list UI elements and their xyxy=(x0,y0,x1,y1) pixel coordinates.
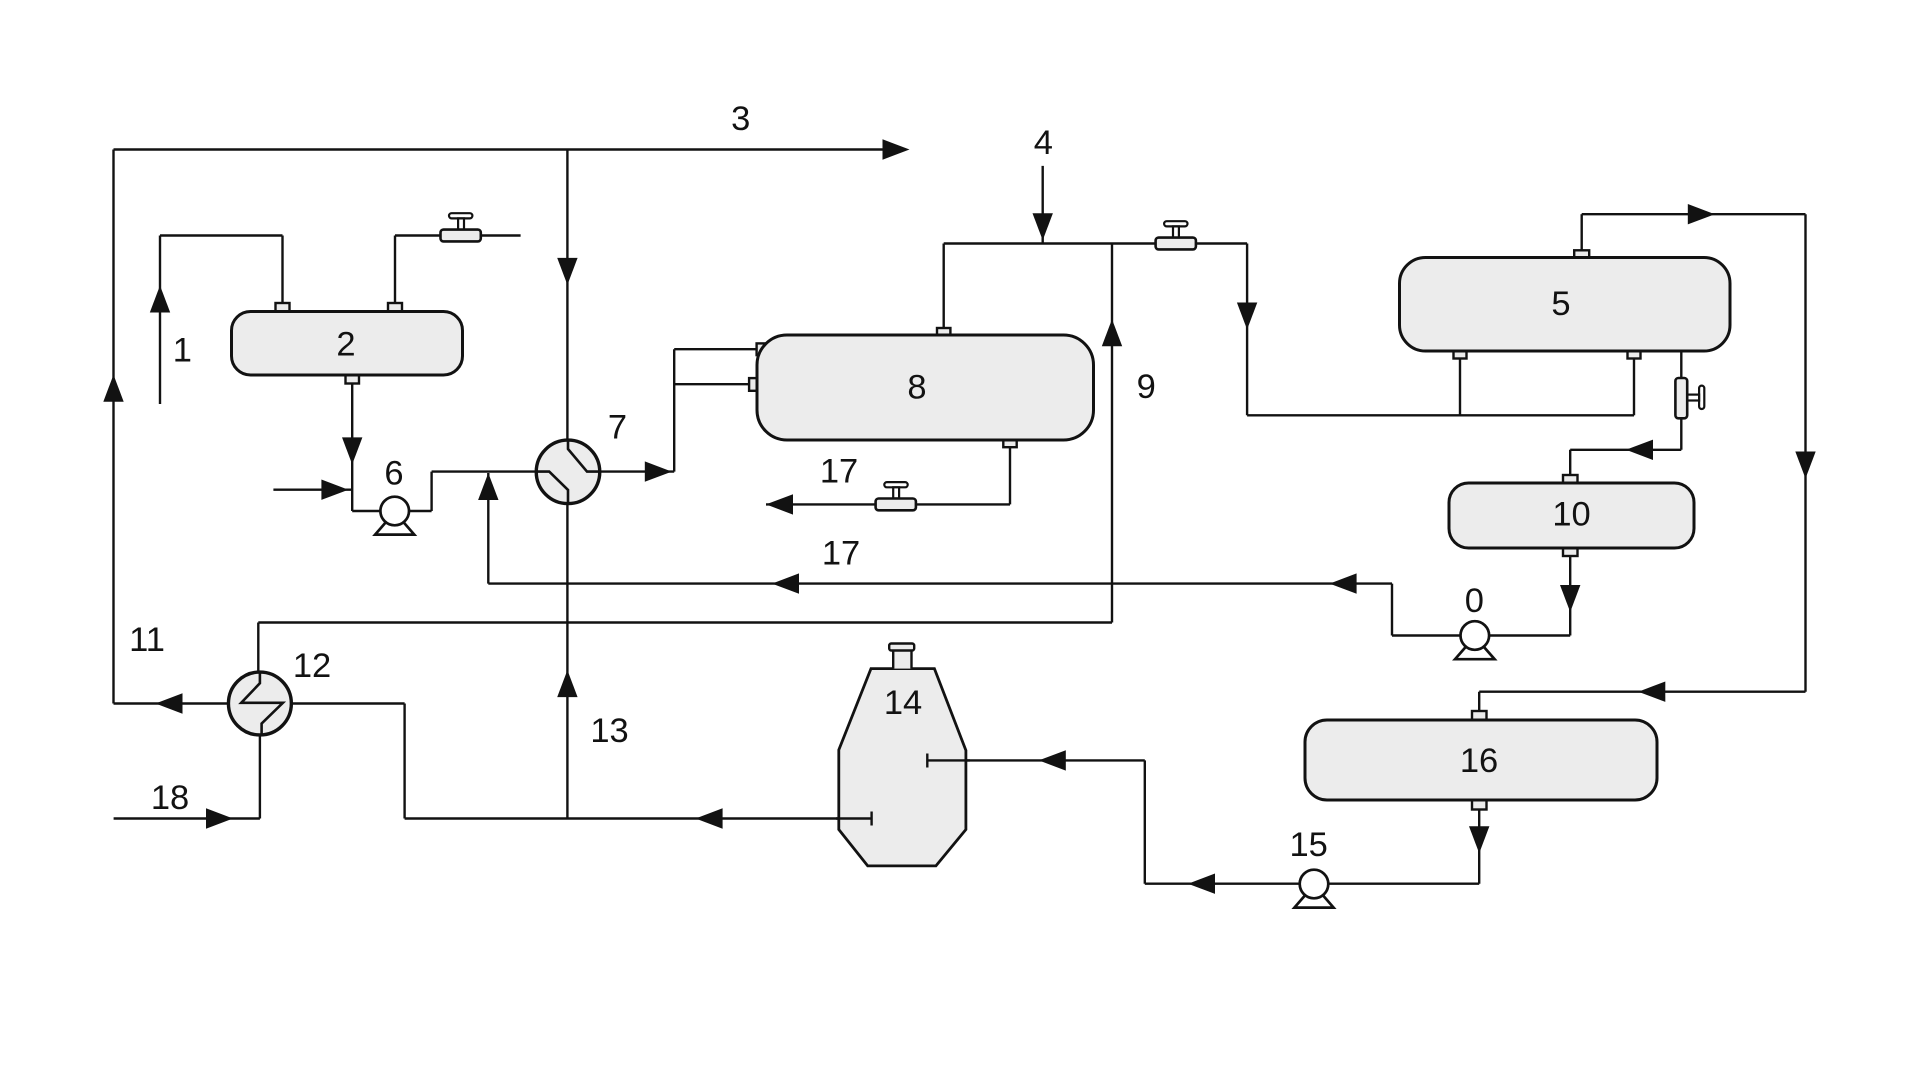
wire HX12 left outlet to riser xyxy=(114,702,230,704)
arrow stream 11 into riser (left) xyxy=(156,693,183,713)
wire stream 9 vertical xyxy=(1111,244,1113,623)
wire vessel 2 to valve V1 xyxy=(395,234,441,236)
arrow into vessel 16 (left) xyxy=(1638,682,1665,702)
wire into vessel 16 top xyxy=(1479,692,1805,712)
svg-text:6: 6 xyxy=(384,454,403,492)
vessel 10 nozzle stubs xyxy=(1563,475,1578,556)
wire vessel 14 left nozzle (inside overlay) xyxy=(836,817,872,819)
svg-text:7: 7 xyxy=(608,408,627,446)
arrow HX7 outlet (right) xyxy=(645,461,672,481)
vessel 8 nozzle stubs xyxy=(749,328,1017,447)
arrow left riser (up) xyxy=(103,375,123,402)
vessel 14 top flange xyxy=(889,644,914,651)
vessel 10 xyxy=(1449,483,1694,548)
wire vessel 5 bottom right nozzle stub xyxy=(1633,358,1635,415)
valve V3 (stream 17 purge) xyxy=(876,482,916,510)
arrow stream 18 inlet (right) xyxy=(206,808,233,828)
svg-text:17: 17 xyxy=(822,535,860,573)
svg-text:11: 11 xyxy=(129,621,165,659)
wire vessel 16 bottom to pump 15 xyxy=(1328,810,1479,884)
vessel 2 nozzle stubs xyxy=(276,303,403,384)
wire vessel 2 left nozzle drop xyxy=(281,236,283,305)
wire vessel 8 lower left nozzle branch xyxy=(674,383,749,385)
svg-text:1: 1 xyxy=(173,332,192,370)
wire pump 0 discharge xyxy=(1392,584,1461,636)
wire vessel 2 right nozzle riser xyxy=(394,236,396,305)
wire stream 17 purge with valve V3 xyxy=(766,503,1010,505)
vessel 8 xyxy=(757,335,1094,440)
wire elbow down to vessel 5 bottom header xyxy=(1246,244,1248,416)
arrow stream 4 inlet (down) xyxy=(1033,213,1053,240)
svg-text:2: 2 xyxy=(336,325,355,363)
arrow feed inlet at pump 6 (right) xyxy=(321,480,348,500)
svg-text:3: 3 xyxy=(731,100,750,138)
svg-text:10: 10 xyxy=(1552,496,1590,534)
wire HX7 outlet to vessel 8 xyxy=(600,349,757,471)
wire vessel 14 outlet header xyxy=(405,817,872,819)
wire stream 18 inlet xyxy=(114,817,260,819)
wire valve V1 outlet stub xyxy=(481,234,521,236)
wire stream 13 lower vertical xyxy=(566,504,568,819)
svg-text:5: 5 xyxy=(1551,285,1570,323)
wire vessel 10 bottom to pump 0 xyxy=(1489,556,1570,636)
arrow valve V4 line to vessel 10 (left) xyxy=(1626,440,1653,460)
vessel 16 xyxy=(1305,720,1657,800)
valve V2 (top header) xyxy=(1156,221,1196,249)
arrow pump 15 discharge (left) xyxy=(1188,874,1215,894)
vessel 16 nozzle stubs xyxy=(1472,711,1487,810)
wire valve V2 to elbow xyxy=(1196,242,1247,244)
svg-text:18: 18 xyxy=(151,779,189,817)
wire stream 1 vertical xyxy=(159,236,161,405)
svg-text:8: 8 xyxy=(907,368,926,406)
wire HX12 right outlet xyxy=(291,704,404,819)
pump 0 xyxy=(1455,621,1495,659)
svg-text:17: 17 xyxy=(820,453,858,491)
svg-text:14: 14 xyxy=(884,684,922,722)
wire HX12 bottom to stream 18 junction xyxy=(259,735,261,818)
wire vessel 14 inlet from pump 15 xyxy=(927,760,1299,883)
arrow stream 17 return mid (left) xyxy=(1330,573,1357,593)
wire stream 4 inlet vertical xyxy=(1041,166,1043,244)
vessel 14 neck xyxy=(893,650,911,668)
op heat exchanger 12 xyxy=(228,672,291,735)
arrow stream 17 return left (left) xyxy=(772,573,799,593)
arrow into vessel 14 (left) xyxy=(1039,750,1066,770)
wire elbow down into HX12 top xyxy=(257,623,259,673)
arrow stream 13 up into HX7 (up) xyxy=(557,670,577,697)
vessel 14 right nozzle tick xyxy=(926,754,928,768)
valve V1 (vessel 2 overhead) xyxy=(441,213,481,241)
wire vessel 14 right nozzle (inside overlay) xyxy=(927,759,970,761)
wire vessel 2 bottom outlet down xyxy=(351,382,353,511)
wire stream 3 horizontal (top) xyxy=(114,148,906,150)
wire pump 6 discharge xyxy=(409,472,536,511)
wire left vertical riser (stream 11 to 3) xyxy=(112,150,114,704)
vessel 14 hopper xyxy=(839,669,966,866)
arrow right vertical (down) xyxy=(1795,452,1815,479)
wire vessel 5 bottom header xyxy=(1247,414,1634,416)
wire stream 17 return horizontal xyxy=(488,582,1392,584)
wire feed inlet to pump 6 junction xyxy=(273,489,352,491)
pump 6 xyxy=(375,497,414,535)
arrow stream 3 end (right) xyxy=(883,139,910,159)
wire elbow into pump 6 xyxy=(352,510,380,512)
arrow vessel 14 outlet header (left) xyxy=(696,808,723,828)
arrow stream 17 purge end (left) xyxy=(766,494,793,514)
op heat exchanger 7 xyxy=(536,440,600,504)
vessel 14 left nozzle tick xyxy=(870,812,872,826)
arrow vessel 10 bottom (down) xyxy=(1560,585,1580,612)
svg-text:0: 0 xyxy=(1465,582,1484,620)
wire stream 1 horizontal to vessel 2 xyxy=(160,234,283,236)
wire header to line 9 elbow xyxy=(258,621,1112,623)
wire stream 17 return riser into HX7 feed line xyxy=(487,473,489,584)
arrow vessel 2 bottom outlet (down) xyxy=(342,437,362,464)
arrow stream 3 branch down into HX7 (down) xyxy=(557,258,577,285)
wire vessel 8 bottom drop xyxy=(1009,447,1011,504)
wire right vertical down xyxy=(1804,214,1806,692)
wire vessel 8 top riser xyxy=(943,244,945,329)
wire stream 3/13 upper vertical through HX7 xyxy=(566,150,568,441)
svg-text:16: 16 xyxy=(1460,742,1498,780)
wire vessel 5 drain to valve V4 xyxy=(1680,351,1682,378)
arrow stream 17 riser (up) xyxy=(478,473,498,500)
svg-text:9: 9 xyxy=(1137,368,1156,406)
vessel 5 xyxy=(1400,258,1731,352)
svg-text:4: 4 xyxy=(1034,124,1053,162)
arrow vessel 16 bottom (down) xyxy=(1469,826,1489,853)
arrow vessel 5 overhead (right) xyxy=(1688,204,1715,224)
arrow elbow to vessel 5 header (down) xyxy=(1237,303,1257,330)
svg-text:15: 15 xyxy=(1290,826,1328,864)
wire valve V4 down and over to vessel 10 xyxy=(1570,418,1681,475)
wire vessel 5 overhead to right edge xyxy=(1582,213,1806,215)
wire vessel 5 top nozzle riser xyxy=(1580,214,1582,250)
arrow stream 9 (up) xyxy=(1102,319,1122,346)
vessel 5 nozzle stubs xyxy=(1454,250,1641,358)
pump 15 xyxy=(1294,870,1333,908)
wire top header to valve V2 xyxy=(944,242,1156,244)
valve V4 (vessel 5 drain, vertical) xyxy=(1675,378,1704,418)
svg-text:12: 12 xyxy=(293,647,331,685)
wire vessel 5 bottom left nozzle stub xyxy=(1459,358,1461,415)
arrow stream 1 (up) xyxy=(150,286,170,313)
svg-text:13: 13 xyxy=(590,712,628,750)
vessel 2 xyxy=(232,312,463,376)
